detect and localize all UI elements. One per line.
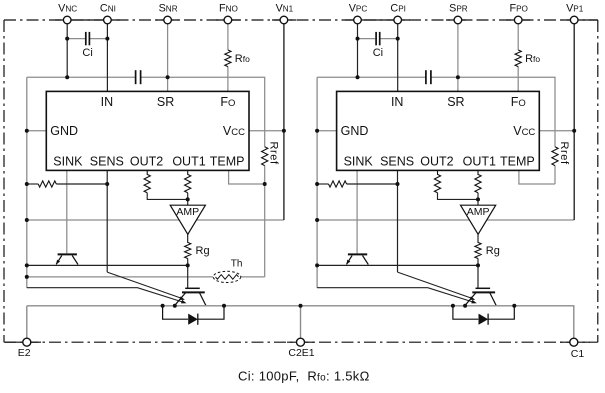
wire Rref node down to thermistor bbox=[264, 184, 266, 277]
terminal SPR bbox=[454, 16, 462, 24]
wire VCC pin to V-bus bbox=[539, 130, 574, 132]
wire terminal VN1 down to VCC node bbox=[283, 24, 285, 220]
wire transistor collector to Rg node bbox=[27, 264, 188, 266]
wire transistor collector to Rg node bbox=[317, 264, 478, 266]
wire GND pin to rail bbox=[27, 130, 47, 132]
svg-text:C2E1: C2E1 bbox=[288, 347, 314, 359]
svg-text:SPR: SPR bbox=[449, 3, 468, 15]
svg-text:OUT2: OUT2 bbox=[130, 154, 163, 168]
svg-text:Rfo: Rfo bbox=[235, 53, 250, 65]
svg-text:SR: SR bbox=[447, 95, 464, 109]
terminal VPC bbox=[354, 16, 362, 24]
svg-text:Rfo: Rfo bbox=[525, 53, 540, 65]
wire SENS diagonal to IGBT emitter bbox=[398, 272, 474, 299]
resistor Rfo bbox=[225, 50, 231, 67]
wire Rref lower lead bbox=[264, 166, 266, 184]
wire SR pin line from terminal SNR bbox=[167, 24, 169, 92]
svg-text:GND: GND bbox=[341, 124, 369, 138]
resistor on OUT1 bbox=[185, 170, 191, 205]
svg-text:SINK: SINK bbox=[53, 154, 83, 168]
wire VN1 horizontal return to rail bbox=[27, 219, 284, 221]
svg-text:FO: FO bbox=[220, 95, 235, 109]
wire terminal VNC down to net line bbox=[66, 24, 68, 77]
svg-text:Th: Th bbox=[231, 259, 243, 270]
wire P-side top net line right segment (series cap to Rref corner) bbox=[431, 77, 556, 147]
wire terminal VPC down to net line bbox=[357, 24, 359, 77]
svg-text:CNI: CNI bbox=[100, 3, 116, 15]
gate driver IC U1 bbox=[46, 91, 249, 170]
terminal FPO bbox=[514, 16, 522, 24]
wire SINK pin down to transistor base bbox=[66, 170, 68, 253]
wire N-side common rail (left vertical bus) bbox=[26, 77, 28, 288]
wire TEMP pin to Rref node bbox=[519, 170, 555, 184]
svg-text:AMP: AMP bbox=[176, 206, 199, 218]
wire SENS diagonal to IGBT emitter bbox=[107, 272, 183, 299]
terminal C2E1 bbox=[297, 338, 305, 346]
wire E2 stub bbox=[26, 306, 28, 339]
module boundary right bbox=[597, 20, 599, 342]
svg-text:Rref: Rref bbox=[268, 142, 280, 166]
terminal CNI bbox=[104, 16, 112, 24]
terminal VP1 bbox=[570, 16, 578, 24]
arrowhead on SENS diagonal bbox=[179, 296, 185, 300]
resistor Rg bbox=[475, 234, 481, 265]
wire terminal CPI down to IN pin bbox=[397, 24, 399, 92]
wire Rg node down to IGBT gate bbox=[477, 265, 479, 288]
svg-text:E2: E2 bbox=[18, 347, 31, 359]
resistor Rref bbox=[552, 147, 558, 166]
IGBT lower switch bbox=[175, 288, 206, 305]
arrowhead on SENS diagonal bbox=[470, 296, 476, 300]
svg-text:OUT1: OUT1 bbox=[172, 154, 205, 168]
resistor Rfo bbox=[515, 50, 521, 67]
terminal VNC bbox=[63, 16, 71, 24]
wire terminal VP1 down to VCC node bbox=[573, 24, 575, 220]
module boundary top solid segments bbox=[55, 19, 598, 21]
op-amp AMP buffer bbox=[170, 205, 205, 234]
svg-text:CPI: CPI bbox=[390, 3, 406, 15]
svg-text:AMP: AMP bbox=[467, 206, 490, 218]
wire VP1 horizontal return to rail bbox=[317, 219, 574, 221]
svg-text:SNR: SNR bbox=[159, 3, 178, 15]
svg-text:TEMP: TEMP bbox=[210, 154, 245, 168]
svg-text:SINK: SINK bbox=[344, 154, 374, 168]
resistor on SENS line (rail to SENS) bbox=[27, 181, 107, 187]
resistor Rg bbox=[185, 234, 191, 265]
wire VCC pin to V-bus bbox=[249, 130, 284, 132]
gate driver IC U2 bbox=[337, 91, 540, 170]
svg-text:SR: SR bbox=[157, 95, 174, 109]
wire capacitor Ci to CPI bbox=[380, 38, 397, 40]
wire SENS pin down bbox=[106, 170, 108, 272]
transistor Q1 (clamp) bbox=[56, 254, 78, 264]
terminal CPI bbox=[394, 16, 402, 24]
capacitor on net line plates bbox=[426, 70, 431, 84]
svg-text:VPC: VPC bbox=[349, 3, 368, 15]
arrowhead on emitter-kelvin diagonal bbox=[471, 300, 477, 304]
svg-text:Ci: Ci bbox=[373, 47, 383, 59]
module boundary bottom solid segments bbox=[5, 341, 590, 343]
wire P-side common rail (left vertical bus) bbox=[316, 77, 318, 288]
wire FPO terminal to Rfo bbox=[517, 24, 519, 50]
svg-text:Rg: Rg bbox=[196, 245, 210, 257]
capacitor Ci plates bbox=[376, 32, 380, 45]
wire main emitter-collector rail bbox=[27, 306, 574, 339]
svg-text:TEMP: TEMP bbox=[500, 154, 535, 168]
terminal VN1 bbox=[280, 16, 288, 24]
wire SR pin line from terminal SPR bbox=[457, 24, 459, 92]
capacitor on net line plates bbox=[136, 70, 141, 84]
svg-text:Ci: Ci bbox=[82, 47, 92, 59]
transistor Q2 (clamp) bbox=[346, 254, 368, 264]
wire VNC to capacitor Ci bbox=[67, 38, 85, 40]
wire SINK pin down to transistor base bbox=[356, 170, 358, 253]
module boundary left bbox=[3, 20, 5, 342]
svg-text:SENS: SENS bbox=[380, 154, 414, 168]
wire rail corner feed to emitter-kelvin diagonal bbox=[317, 288, 475, 303]
module boundary top bbox=[4, 19, 598, 21]
module boundary bottom bbox=[4, 341, 598, 343]
svg-text:SENS: SENS bbox=[90, 154, 124, 168]
svg-text:VNC: VNC bbox=[58, 3, 77, 15]
svg-text:VCC: VCC bbox=[513, 124, 535, 138]
wire capacitor Ci to CNI bbox=[90, 38, 107, 40]
resistor Rref bbox=[262, 147, 268, 166]
svg-text:Ci: 100pF, Rfo: 1.5kΩ: Ci: 100pF, Rfo: 1.5kΩ bbox=[238, 369, 370, 384]
svg-text:OUT1: OUT1 bbox=[463, 154, 496, 168]
wire rail to thermistor left lead bbox=[27, 276, 213, 278]
wire VPC to capacitor Ci bbox=[358, 38, 376, 40]
wire thermistor right lead to Rref line bbox=[241, 276, 265, 278]
thermistor Th bbox=[213, 271, 241, 282]
capacitor Ci plates bbox=[86, 32, 90, 45]
terminal C1 bbox=[570, 338, 578, 346]
svg-text:Rref: Rref bbox=[558, 142, 570, 166]
wire C2E1 stub bbox=[300, 306, 302, 339]
diode D2 freewheel (upper) bbox=[453, 306, 514, 325]
svg-text:FO: FO bbox=[511, 95, 526, 109]
arrowhead on emitter-kelvin diagonal bbox=[181, 300, 187, 304]
resistor on SENS line (rail to SENS) bbox=[317, 181, 397, 187]
wire Rref lower lead bbox=[554, 166, 556, 184]
terminal SNR bbox=[164, 16, 172, 24]
svg-text:OUT2: OUT2 bbox=[420, 154, 453, 168]
wire SENS pin down bbox=[397, 170, 399, 272]
svg-text:VP1: VP1 bbox=[566, 3, 584, 15]
wire FNO terminal to Rfo bbox=[227, 24, 229, 50]
svg-text:VN1: VN1 bbox=[276, 3, 294, 15]
wire terminal CNI down to IN pin bbox=[106, 24, 108, 92]
svg-text:Rg: Rg bbox=[486, 245, 500, 257]
svg-text:C1: C1 bbox=[571, 348, 585, 360]
svg-text:FPO: FPO bbox=[509, 3, 527, 15]
resistor on OUT2 bbox=[144, 170, 188, 199]
resistor on OUT1 bbox=[475, 170, 481, 205]
terminal E2 bbox=[23, 338, 31, 346]
svg-text:IN: IN bbox=[101, 95, 114, 109]
wire Rfo to FO pin bbox=[517, 67, 519, 92]
IGBT upper switch bbox=[465, 288, 496, 305]
wire P-side top net line left segment (rail to series cap) bbox=[317, 76, 426, 78]
svg-text:VCC: VCC bbox=[223, 124, 245, 138]
wire rail corner feed to emitter-kelvin diagonal bbox=[27, 288, 185, 303]
svg-text:FNO: FNO bbox=[219, 3, 238, 15]
wire Rg node down to IGBT gate bbox=[187, 265, 189, 288]
svg-text:GND: GND bbox=[50, 124, 78, 138]
wire N-side top net line right segment (series cap to Rref corner) bbox=[140, 77, 265, 147]
wire N-side top net line left segment (rail to series cap) bbox=[27, 76, 136, 78]
wire Rfo to FO pin bbox=[227, 67, 229, 92]
op-amp AMP buffer bbox=[461, 205, 496, 234]
wire TEMP pin to Rref node bbox=[229, 170, 265, 184]
svg-text:IN: IN bbox=[391, 95, 404, 109]
diode D1 freewheel (lower) bbox=[163, 306, 224, 325]
wire GND pin to rail bbox=[317, 130, 337, 132]
terminal FNO bbox=[224, 16, 232, 24]
resistor on OUT2 bbox=[434, 170, 478, 199]
